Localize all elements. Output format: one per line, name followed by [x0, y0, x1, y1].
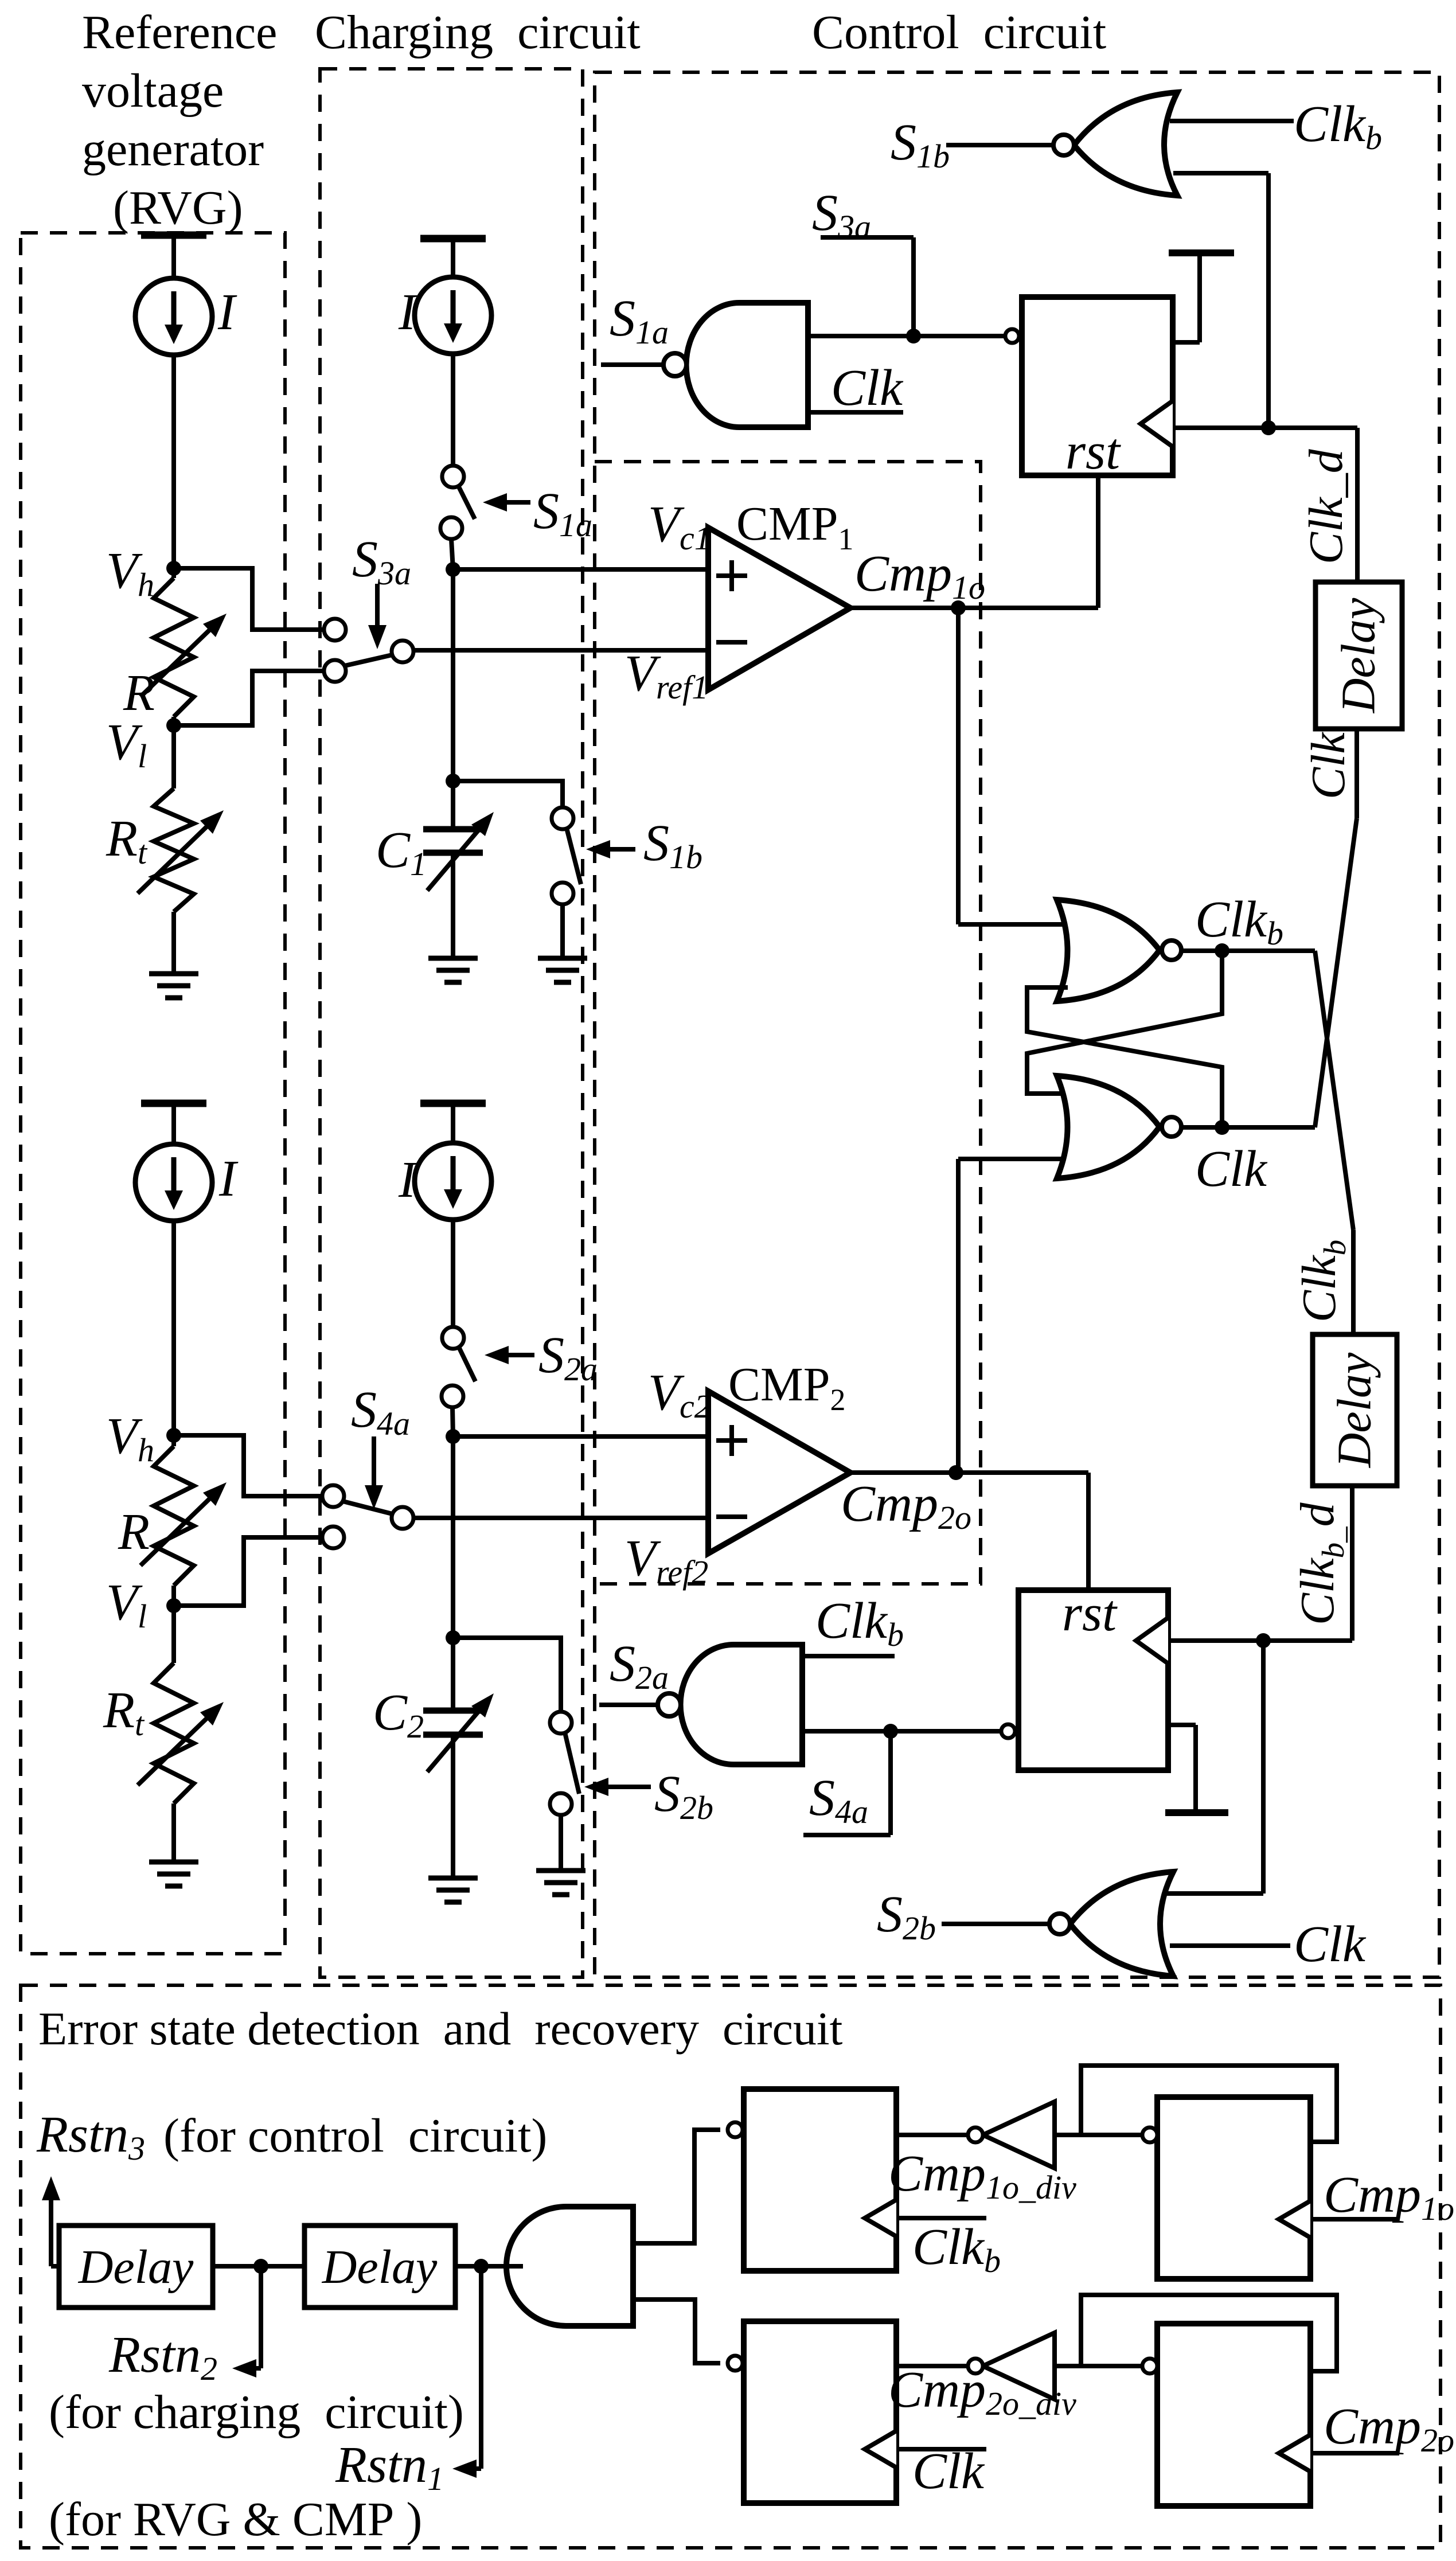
switch S1a contact top	[442, 466, 464, 487]
latch feedback: Clkb to U4 input	[1027, 951, 1222, 1094]
NOR U6 input Clk	[1170, 1943, 1290, 1948]
AND U7 upper input wire	[633, 2130, 720, 2243]
svg-text:Charging circuit: Charging circuit	[315, 6, 641, 59]
svg-text:Delay: Delay	[1328, 1352, 1381, 1468]
switch S1b contact bottom	[552, 883, 573, 904]
wire Clkb to Delay2 (diagonal)	[1315, 951, 1353, 1230]
svg-text:(for control circuit): (for control circuit)	[163, 2109, 547, 2162]
switch S3a pole (Vh)	[324, 619, 346, 641]
wire Vh to switch S4a	[174, 1435, 323, 1496]
svg-text:(for RVG & CMP ): (for RVG & CMP )	[49, 2493, 422, 2546]
node junction S4a/ff input	[883, 1724, 898, 1739]
flip-flop FF2 (rst)	[1018, 1590, 1168, 1770]
delay block DelayA	[59, 2226, 213, 2308]
svg-text:Reference: Reference	[82, 6, 277, 59]
CMP1 minus sign	[716, 640, 747, 645]
svg-text:Clkb: Clkb	[1195, 891, 1283, 952]
FFD output bubble	[1142, 2359, 1157, 2373]
node Clkb	[1215, 943, 1229, 958]
flip-flop FFA (Cmp1o_div)	[744, 2089, 896, 2271]
wire	[451, 1220, 455, 1328]
dashed box: Error state detection and recovery circuit	[21, 1985, 1441, 2548]
svg-text:Clk: Clk	[1195, 1141, 1268, 1197]
svg-text:S1b: S1b	[891, 114, 950, 175]
node Cmp1o	[951, 600, 966, 615]
svg-text:S3a: S3a	[352, 531, 411, 592]
svg-text:Cmp1o: Cmp1o	[1324, 2166, 1454, 2227]
wire Cmp1o to latch	[956, 608, 961, 924]
node Clk_d junction	[1261, 420, 1276, 435]
switch S4a pole (Vl)	[322, 1527, 344, 1548]
resistor R (RVG2)	[154, 1446, 194, 1586]
wire	[559, 1815, 563, 1871]
svg-text:C2: C2	[373, 1684, 424, 1745]
switch S3a pole (Vl)	[324, 660, 346, 682]
NAND U5 input net S4a	[802, 1729, 1001, 1734]
svg-text:Clkb: Clkb	[912, 2219, 1001, 2279]
FFD clock triangle	[1279, 2435, 1310, 2472]
arrow of variable resistor Rt	[138, 827, 206, 893]
power rail (charging 2)	[420, 1100, 486, 1107]
svg-text:Vl: Vl	[106, 1574, 147, 1635]
wire DelayA to DelayB	[213, 2264, 305, 2269]
svg-text:I: I	[398, 284, 418, 341]
FFA clock stub Clkb	[896, 2216, 986, 2220]
CMP2 plus sign	[716, 1438, 747, 1443]
FFB feedback wire	[1081, 2066, 1337, 2142]
arrow of variable resistor Rt (RVG2)	[138, 1719, 206, 1785]
wire	[1266, 173, 1271, 428]
FFB output bubble	[1142, 2127, 1157, 2142]
node Vl (RVG2)	[166, 1598, 181, 1613]
switch S2a contact bottom	[442, 1385, 463, 1407]
FF1 clock wire (Clk_d)	[1173, 425, 1357, 430]
svg-text:(for charging circuit): (for charging circuit)	[49, 2386, 464, 2439]
FF2 clock triangle	[1136, 1618, 1168, 1664]
FFC output bubble	[728, 2356, 743, 2371]
wire	[452, 1407, 453, 1436]
resistor Rt (RVG2)	[154, 1663, 194, 1803]
op-amp comparator CMP1	[708, 528, 850, 690]
switch S1b contact top	[552, 807, 573, 829]
wire node to switch S1b	[453, 781, 563, 808]
FFC clock triangle	[865, 2431, 896, 2468]
wire Vl to switch S4a	[174, 1537, 323, 1606]
wire	[451, 354, 455, 466]
node Rstn2 junction	[253, 2259, 268, 2274]
svg-text:rst: rst	[1062, 1585, 1118, 1642]
wire Vref1	[414, 648, 708, 653]
svg-text:Vc2: Vc2	[648, 1364, 711, 1425]
current source I (RVG1)	[135, 278, 212, 355]
switch S1b arm	[567, 828, 581, 884]
FF1 D tied high (rail symbol)	[1173, 340, 1200, 345]
flip-flop FF1 (rst)	[1022, 297, 1173, 475]
NOR U1 input from Clk_d	[1173, 171, 1268, 175]
flip-flop FFC (Cmp2o_div)	[744, 2321, 896, 2503]
svg-text:S4a: S4a	[351, 1381, 410, 1442]
arrow S2a	[509, 1353, 534, 1357]
NAND U2 input net S3a	[808, 334, 1005, 338]
arrow of variable capacitor C2	[427, 1712, 478, 1772]
arrow S3a	[375, 584, 380, 625]
ground (S1b)	[538, 956, 587, 961]
node Rstn1 junction	[474, 2259, 489, 2274]
arrow S1b	[610, 847, 635, 852]
wire	[171, 1586, 176, 1663]
latch feedback: Clk to U3 input	[1027, 987, 1222, 1127]
svg-text:Rt: Rt	[103, 1682, 145, 1743]
svg-text:rst: rst	[1065, 423, 1121, 480]
resistor R (RVG1)	[154, 578, 194, 717]
switch S4a pole (Vh)	[322, 1485, 344, 1507]
svg-text:Vref1: Vref1	[624, 645, 708, 706]
wire S1a	[601, 362, 663, 367]
switch S2b contact bottom	[550, 1793, 572, 1815]
svg-text:Vc1: Vc1	[648, 496, 711, 557]
wire	[171, 725, 176, 788]
arrow S2b	[608, 1785, 651, 1789]
dashed box: Control circuit	[595, 72, 1439, 1977]
wire Cmp2o to rst of flip-flop 2	[1086, 1473, 1091, 1590]
svg-text:Clkb: Clkb	[1293, 1240, 1352, 1322]
dashed box: Reference voltage generator (RVG)	[21, 233, 285, 1954]
wire Rstn1	[479, 2266, 483, 2469]
svg-text:(RVG): (RVG)	[113, 181, 243, 235]
FFB clock wire Cmp1o	[1310, 2217, 1399, 2222]
wire Vc2 to CMP2	[453, 1434, 708, 1439]
svg-text:Clk: Clk	[831, 360, 904, 416]
capacitor C1 (variable)	[423, 826, 483, 833]
delay block DelayB	[305, 2226, 455, 2308]
wire Cmp1o to rst of flip-flop 1	[1096, 475, 1100, 608]
svg-text:Rstn1: Rstn1	[335, 2437, 444, 2497]
svg-text:Error state detection and re: Error state detection and recovery circu…	[38, 2002, 843, 2055]
wire Cmp1o	[850, 606, 1098, 610]
node Cmp2o	[948, 1465, 963, 1480]
NAND gate U2 (output S1a)	[686, 303, 808, 427]
NOR gate U6 (output S2b)	[1070, 1872, 1173, 1976]
svg-text:CMP2: CMP2	[728, 1358, 845, 1417]
FF2 D tied rail symbol	[1168, 1723, 1196, 1727]
svg-text:S2a: S2a	[610, 1635, 669, 1696]
svg-text:Clk_d: Clk_d	[1299, 448, 1353, 564]
wire S2b to NOR	[942, 1922, 1049, 1926]
wire below Delay2	[1350, 1486, 1354, 1641]
current source I (charging 1)	[415, 277, 491, 354]
svg-text:S2a: S2a	[538, 1327, 598, 1388]
inverter U8	[983, 2102, 1055, 2168]
svg-text:Vref2: Vref2	[624, 1530, 708, 1591]
wire U8 input	[1055, 2133, 1142, 2137]
svg-text:Delay: Delay	[322, 2240, 438, 2294]
wire Cmp2o	[850, 1470, 1088, 1475]
svg-text:Clk: Clk	[1302, 732, 1355, 799]
svg-text:Delay: Delay	[78, 2240, 194, 2294]
wire Vh to switch S3a	[174, 568, 324, 630]
NOR gate U3 (latch top, output Clkb)	[1057, 900, 1160, 1001]
FF2 output bubble	[1001, 1724, 1015, 1738]
NOR U1 input Clkb	[1170, 119, 1294, 123]
wire S3a stub	[821, 235, 914, 240]
wire Cmp2o to NOR U4 input	[958, 1157, 1064, 1161]
current source I (charging 2)	[415, 1143, 491, 1220]
inverter U9	[983, 2333, 1055, 2399]
wire Cmp1o_div	[896, 2133, 968, 2137]
wire Vl to switch S3a	[174, 671, 324, 725]
svg-text:Clkb: Clkb	[815, 1592, 904, 1653]
NOR U6 input from Clkb_d	[1167, 1891, 1263, 1896]
wire Vc1 to CMP1	[453, 567, 708, 572]
wire Clk_d down to Delay 1	[1355, 428, 1360, 582]
FFA clock triangle	[865, 2200, 896, 2236]
AND U7 output wire	[505, 2264, 523, 2269]
svg-text:Vh: Vh	[106, 1408, 154, 1469]
wire S1b to NOR	[946, 143, 1053, 147]
FFA output bubble	[728, 2122, 743, 2137]
ground (RVG1)	[149, 971, 198, 977]
arrow of variable capacitor C1	[427, 830, 478, 891]
svg-text:Vl: Vl	[106, 714, 147, 775]
dashed box: Charging circuit	[320, 69, 583, 1977]
wire	[451, 853, 455, 958]
capacitor C2 (variable)	[423, 1708, 483, 1714]
svg-text:CMP1: CMP1	[736, 497, 853, 556]
svg-text:Cmp2o: Cmp2o	[1324, 2398, 1454, 2459]
svg-text:C1: C1	[376, 822, 427, 883]
wire	[171, 1435, 176, 1446]
wire	[171, 912, 176, 974]
NAND U2 input Clk stub	[808, 410, 903, 415]
wire Cmp2o_div	[896, 2364, 968, 2368]
wire below Delay1	[1354, 729, 1359, 818]
wire	[171, 568, 176, 578]
svg-text:Clkb: Clkb	[1294, 96, 1382, 157]
delay block Delay2	[1313, 1334, 1397, 1486]
svg-text:generator: generator	[82, 123, 264, 176]
arrow S1a	[507, 500, 530, 505]
node C1 top	[446, 774, 460, 788]
switch S1a contact bottom	[440, 517, 462, 539]
switch S2a arm	[459, 1347, 475, 1381]
switch S2b arm	[565, 1732, 579, 1794]
svg-text:R: R	[118, 1504, 150, 1560]
svg-text:Rt: Rt	[106, 810, 148, 871]
node Vc1	[446, 562, 460, 577]
FF1 clock triangle	[1141, 401, 1173, 447]
wire	[171, 1221, 176, 1435]
switch S3a arm	[345, 655, 392, 666]
delay block Delay1	[1316, 582, 1402, 729]
flip-flop FFD (div2)	[1157, 2324, 1310, 2506]
ground (C2)	[428, 1876, 478, 1881]
svg-text:I: I	[398, 1151, 418, 1208]
switch S2b contact top	[550, 1712, 572, 1734]
node Vh (RVG2)	[166, 1428, 181, 1443]
svg-text:S1b: S1b	[643, 815, 702, 876]
wire	[171, 354, 176, 571]
node junction S3a/ff input	[906, 329, 921, 343]
ground (S2b)	[536, 1868, 585, 1873]
wire Cmp1o to NOR U3 input	[958, 922, 1065, 927]
CMP1 plus sign	[716, 573, 747, 578]
power rail (RVG2)	[141, 1100, 206, 1107]
AND U7 lower input wire	[633, 2300, 720, 2363]
wire	[171, 717, 176, 727]
svg-text:S2b: S2b	[654, 1766, 713, 1826]
NOR gate U4 (latch bottom, output Clk)	[1057, 1076, 1160, 1178]
wire Rstn2	[259, 2266, 263, 2368]
node Vc2	[446, 1429, 460, 1444]
wire	[560, 904, 565, 958]
svg-text:Rstn3: Rstn3	[36, 2106, 145, 2167]
switch S4a arm	[343, 1501, 392, 1514]
CMP2 minus sign	[716, 1514, 747, 1519]
svg-text:Delay: Delay	[1332, 598, 1385, 713]
wire Vref2	[414, 1516, 708, 1520]
wire node to switch S2b	[453, 1638, 561, 1712]
wire Clk from latch to Delay1 (diagonal)	[1315, 818, 1357, 1127]
power rail (RVG1)	[141, 232, 206, 239]
FFC clock stub Clk	[896, 2447, 986, 2451]
svg-text:voltage: voltage	[82, 64, 224, 118]
flip-flop FFB (div1)	[1157, 2097, 1310, 2279]
wire Clkb_d down to NOR U6	[1261, 1641, 1266, 1894]
arrow of variable resistor R	[140, 630, 209, 697]
svg-text:I: I	[217, 284, 237, 341]
svg-text:I: I	[218, 1150, 239, 1207]
arrow S4a	[372, 1436, 376, 1485]
wire Clkb_d to FF2 clock	[1168, 1638, 1352, 1643]
node C2 top	[446, 1630, 460, 1645]
switch S2a contact top	[442, 1327, 464, 1349]
NAND2 input Clkb stub	[802, 1654, 895, 1658]
wire U9 input	[1055, 2364, 1142, 2368]
wire	[451, 1436, 455, 1711]
svg-text:S1a: S1a	[610, 290, 669, 351]
svg-text:S4a: S4a	[809, 1770, 868, 1830]
FFD feedback wire	[1081, 2295, 1337, 2371]
NOR U3 output wire Clkb	[1181, 948, 1315, 953]
switch S3a common	[392, 641, 413, 662]
FFB clock triangle	[1279, 2201, 1310, 2238]
op-amp comparator CMP2	[708, 1391, 850, 1553]
NOR gate U1 (output S1b)	[1074, 92, 1177, 196]
svg-text:Rstn2: Rstn2	[108, 2326, 217, 2387]
node Clkb_d junction	[1256, 1633, 1271, 1648]
svg-text:Cmp1o: Cmp1o	[854, 545, 985, 606]
svg-text:S2b: S2b	[877, 1886, 936, 1947]
wire	[451, 539, 453, 569]
wire	[451, 569, 455, 829]
wire DelayB to AND	[455, 2264, 523, 2269]
node Clk	[1215, 1120, 1229, 1135]
wire S4a stub	[888, 1731, 893, 1835]
wire	[171, 1803, 176, 1862]
ground (RVG2)	[149, 1860, 198, 1865]
wire	[451, 1735, 455, 1878]
wire	[51, 2264, 59, 2269]
svg-text:Vh: Vh	[106, 542, 154, 603]
node Vl (RVG1)	[166, 718, 181, 733]
node Vh (RVG1)	[166, 561, 181, 576]
FF1 output bubble	[1005, 329, 1019, 343]
svg-text:Clk: Clk	[912, 2443, 985, 2500]
ground (C1)	[428, 956, 478, 961]
wire S2a	[599, 1703, 658, 1707]
resistor Rt (RVG1)	[154, 788, 194, 912]
switch S1a arm	[458, 486, 475, 519]
svg-text:Clkb_d: Clkb_d	[1291, 1502, 1350, 1625]
power rail (charging 1)	[420, 235, 486, 243]
arrow of variable resistor R (RVG2)	[140, 1499, 209, 1566]
svg-text:Cmp2o: Cmp2o	[841, 1475, 971, 1536]
arrow Rstn3	[49, 2200, 53, 2266]
svg-text:R: R	[123, 665, 155, 721]
NAND gate U5 (output S2a)	[681, 1645, 802, 1764]
AND gate U7 (mirrored)	[506, 2207, 633, 2326]
switch S4a common	[392, 1507, 413, 1529]
dashed box: comparator section (top/right/bottom edges)	[595, 462, 981, 1584]
current source I (RVG2)	[135, 1144, 212, 1221]
svg-text:Clk: Clk	[1294, 1916, 1367, 1973]
NOR U4 output wire Clk	[1181, 1125, 1315, 1130]
svg-text:Control circuit: Control circuit	[812, 6, 1106, 59]
FFD clock wire Cmp2o	[1310, 2451, 1399, 2455]
